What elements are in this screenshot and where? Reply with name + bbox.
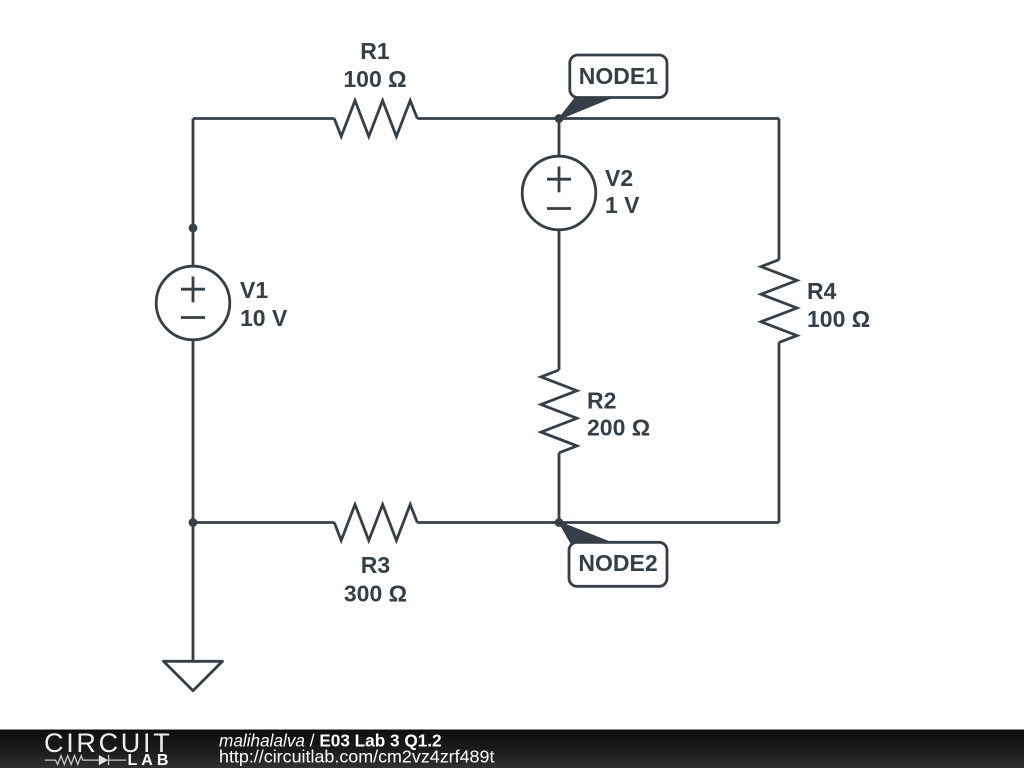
label R2 value <box>587 388 650 441</box>
wire bottom-left horizontal (node to R3 left lead) <box>193 521 334 524</box>
svg-text:100 Ω: 100 Ω <box>343 66 406 92</box>
wire left vertical (V1 bottom to ground) <box>192 340 195 661</box>
svg-text:NODE1: NODE1 <box>579 63 658 89</box>
label R4 value <box>807 278 870 332</box>
svg-text:200 Ω: 200 Ω <box>587 415 650 441</box>
voltage source V1 <box>156 266 230 340</box>
ground <box>164 661 223 691</box>
footer bar <box>0 730 1024 768</box>
svg-text:R3: R3 <box>361 552 390 578</box>
label R1 value <box>343 38 406 92</box>
CircuitLab logo resistor-diode doodle <box>45 755 126 765</box>
label R3 value <box>344 552 407 607</box>
node junction dot bottom-left <box>189 518 198 527</box>
svg-text:10 V: 10 V <box>240 305 288 331</box>
wire top horizontal (R1 to NODE1 to top-right corner) <box>417 117 779 120</box>
svg-text:100 Ω: 100 Ω <box>807 306 870 332</box>
resistor R3 <box>334 505 417 541</box>
resistor R2 <box>541 370 577 453</box>
node junction dot at V1 top <box>189 224 198 233</box>
svg-text:R1: R1 <box>360 38 390 64</box>
wire left vertical (top corner to V1 top) <box>192 119 195 267</box>
resistor R4 <box>761 260 797 343</box>
wire middle vertical (V2 to R2) <box>558 230 561 370</box>
voltage source V2 <box>522 156 596 230</box>
wire top-left horizontal (to R1 left lead) <box>193 117 334 120</box>
wire right vertical (top corner to R4) <box>778 119 781 260</box>
node NODE2 callout box <box>569 542 667 586</box>
wire V2 top lead (NODE1 to V2) <box>558 119 561 157</box>
label V2 value <box>605 165 640 218</box>
svg-text:R4: R4 <box>807 278 837 304</box>
svg-text:NODE2: NODE2 <box>578 550 657 576</box>
wire bottom horizontal (bottom-right corner to R3 right lead) <box>417 521 779 524</box>
wire middle vertical (R2 to NODE2) <box>558 453 561 523</box>
svg-text:300 Ω: 300 Ω <box>344 581 407 607</box>
label V1 value <box>240 277 288 331</box>
node NODE2 callout tail <box>560 523 611 543</box>
resistor R1 <box>334 101 417 137</box>
svg-text:1 V: 1 V <box>605 192 640 218</box>
node NODE2 junction dot <box>555 518 564 527</box>
node NODE1 callout box <box>570 55 667 98</box>
svg-text:http://circuitlab.com/cm2vz4zr: http://circuitlab.com/cm2vz4zrf489t <box>219 747 494 767</box>
svg-text:V1: V1 <box>240 277 268 303</box>
svg-text:V2: V2 <box>605 165 633 191</box>
node NODE1 callout tail <box>560 98 612 119</box>
svg-text:LAB: LAB <box>128 752 173 768</box>
svg-text:R2: R2 <box>587 388 616 414</box>
node NODE1 junction dot <box>555 114 564 123</box>
wire right vertical (R4 to bottom-right corner) <box>778 342 781 522</box>
